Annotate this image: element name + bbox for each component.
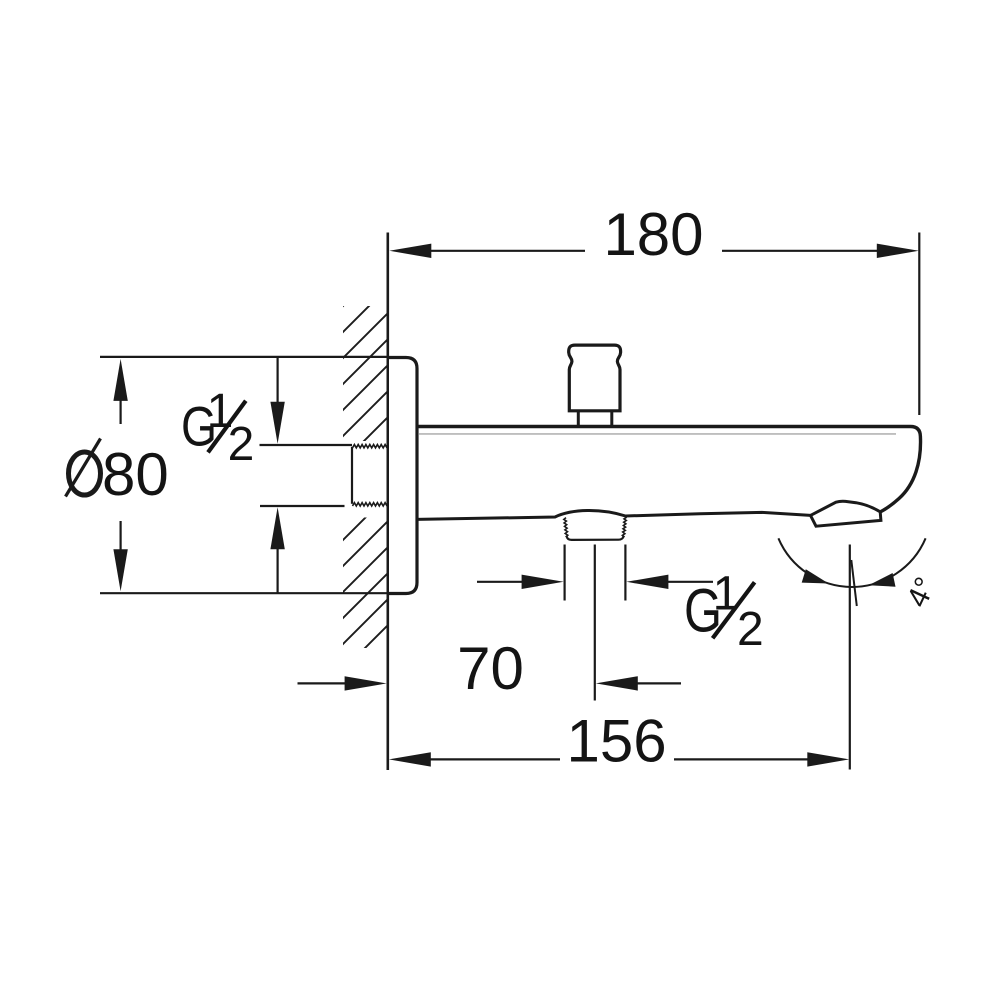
dim port G1/2 right tail [668,581,713,583]
inlet thread nipple bottom thread [353,503,388,506]
dim G1/2 inlet up arrow [270,507,284,549]
dim 70 left tail [298,682,346,684]
dim ø80 diameter symbol (circle + slash) [69,452,101,495]
wall upper hatched section [343,306,388,441]
inlet thread nipple top thread [353,445,388,448]
inlet thread nipple left edge [351,447,353,504]
dim G1/2 inlet lower tail [277,548,279,593]
dim ø80 top extension line [100,356,387,358]
svg-text:4°: 4° [901,572,943,612]
outlet aerator lip at spout tip [811,501,881,526]
wall face line (also 180 and 156 extension line) [386,233,389,771]
dim ø80 top tail [119,400,121,424]
label port G1/2 fraction slash [713,582,755,638]
svg-text:80: 80 [102,441,169,508]
spout body faint inner highlight line [419,433,896,435]
spout body top edge and right end curve [417,427,921,512]
angle 4deg arc [778,538,925,587]
dim 156 right extension line (outlet centre) [849,545,851,770]
angle 4deg arc right arrowhead [869,573,896,587]
dim port G1/2 right arrow [626,575,668,589]
dim 70 right tail [638,682,682,684]
flange (wall plate) [389,358,417,594]
dim G1/2 inlet top extension line [260,444,353,446]
dim port G1/2 left tail [477,581,522,583]
label G1/2 inlet fraction slash [208,401,246,453]
dim port G1/2 left extension line [563,545,565,601]
svg-text:156: 156 [567,708,667,775]
dim 156 line left segment [430,758,561,760]
dim G1/2 inlet upper tail [277,357,279,403]
diverter knob stem right side [610,411,613,427]
dim 70 right arrow [596,676,638,690]
svg-text:2: 2 [737,603,764,656]
wall lower hatched section [343,518,388,649]
dim port G1/2 left arrow [522,575,564,589]
svg-text:180: 180 [603,201,703,268]
dim 70 left arrow [345,676,387,690]
dim G1/2 inlet bottom extension line [260,505,345,507]
bottom port collar right thread edge [622,517,626,537]
dim ø80 bottom tail [119,521,121,551]
port centre extension line [594,545,596,701]
diverter knob body and cap [569,345,621,411]
dim 180 line left segment [430,250,585,252]
dim port G1/2 right extension line [624,545,626,601]
dim G1/2 inlet down arrow [270,402,284,444]
svg-text:1: 1 [713,568,740,621]
bottom port collar left thread edge [564,518,568,537]
angle 4deg tilted axis line [851,560,857,606]
dim 180 line right segment [722,250,878,252]
angle 4deg arc left arrowhead [802,569,829,583]
dim 180 right arrow [877,244,919,258]
svg-text:70: 70 [457,635,524,702]
dim ø80 top arrow [113,359,127,401]
dim 156 left arrow [389,752,431,766]
svg-text:2: 2 [228,418,255,471]
bottom port collar bottom edge [567,537,624,540]
diverter knob stem left side [577,411,580,427]
dim 180 right extension line [918,233,920,416]
dim 156 right arrow [807,752,849,766]
spout body bottom edge with diverter port bump [417,511,811,520]
dim ø80 bottom extension line [100,592,387,594]
dim ø80 bottom arrow [113,549,127,591]
dim 156 line right segment [674,758,809,760]
dim 180 left arrow [389,244,431,258]
